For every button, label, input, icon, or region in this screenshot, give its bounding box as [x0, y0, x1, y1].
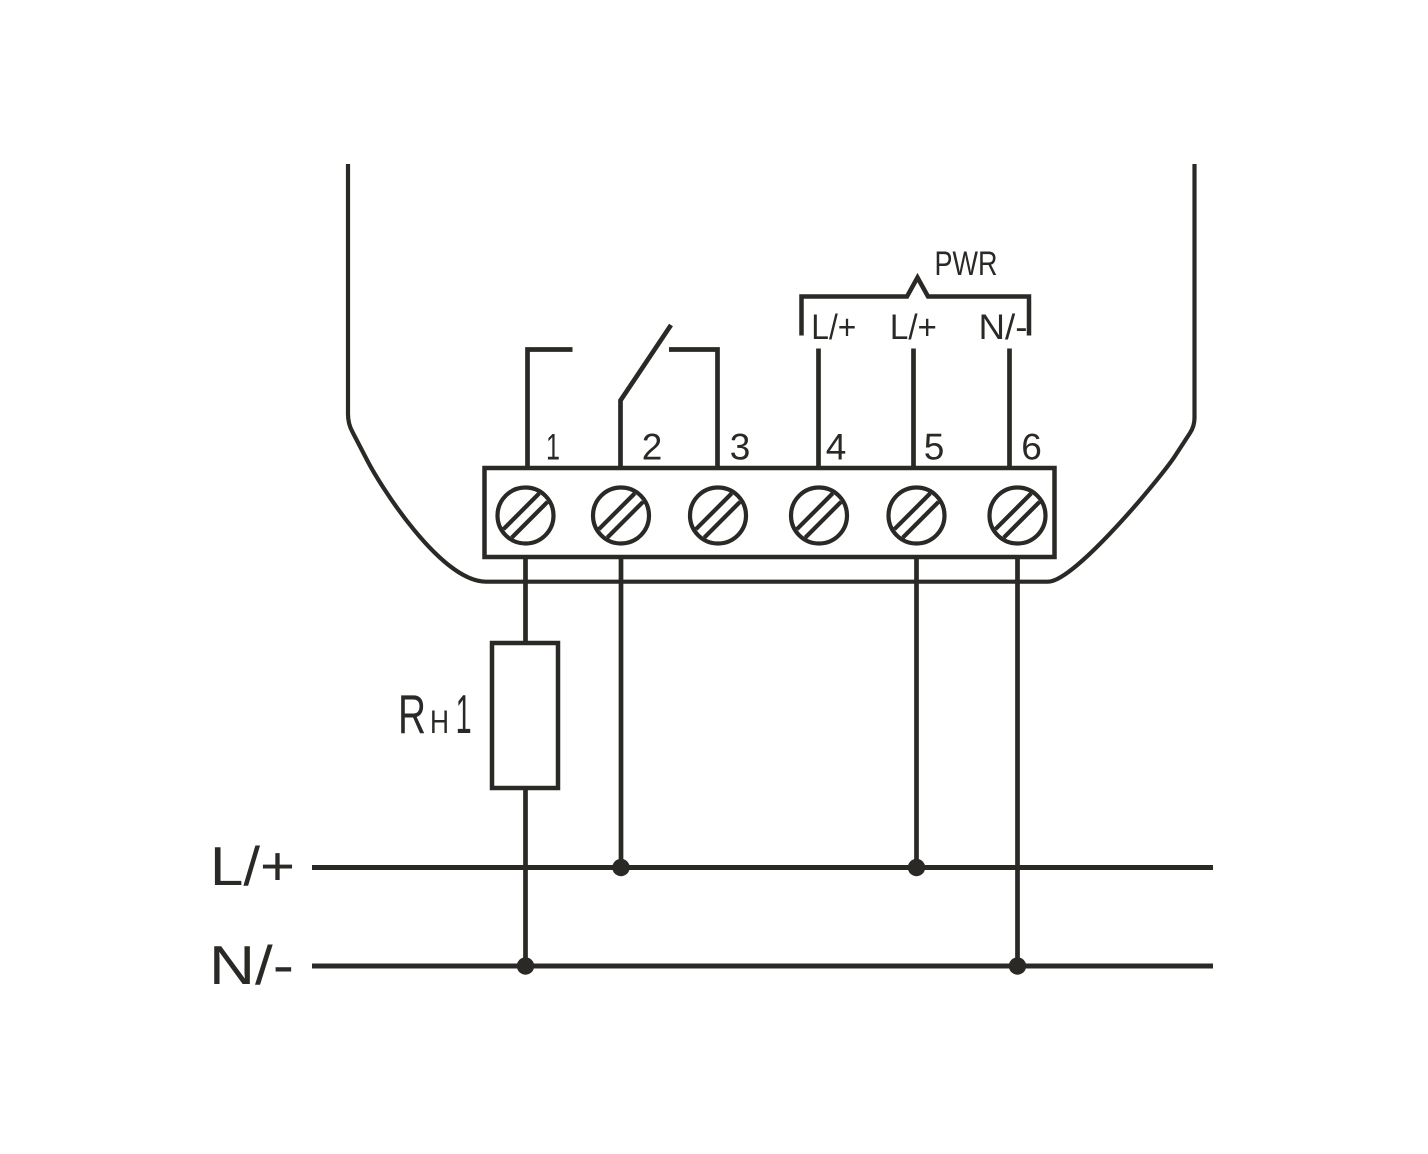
wire terminal1 down to resistor [523, 557, 528, 643]
switch S1 blade [621, 325, 672, 468]
wire terminal4 stub [816, 349, 821, 469]
svg-text:H: H [430, 704, 449, 740]
svg-text:L/+: L/+ [210, 835, 295, 897]
junction wire5/L+ [908, 859, 925, 876]
wire terminal5 down to L/+ bus [914, 557, 919, 868]
terminal strip body [485, 468, 1055, 557]
device enclosure outline [348, 164, 1195, 582]
N/- bus line [312, 964, 1213, 969]
svg-text:L/+: L/+ [890, 308, 937, 347]
svg-text:4: 4 [826, 427, 847, 468]
svg-text:6: 6 [1021, 427, 1042, 468]
svg-text:5: 5 [924, 427, 945, 468]
screw terminal 4 [791, 488, 847, 544]
svg-text:1: 1 [546, 427, 560, 468]
screw terminal 6 [990, 488, 1046, 544]
wire terminal2 down to L/+ bus [619, 557, 624, 868]
PWR bracket [802, 278, 1030, 336]
svg-text:L/+: L/+ [811, 308, 856, 347]
wire terminal6 down to N/- bus [1015, 557, 1020, 966]
svg-text:1: 1 [456, 683, 472, 745]
screw terminal 1 [498, 488, 554, 544]
wire terminal3 to contact [669, 350, 718, 469]
svg-text:R: R [398, 683, 426, 745]
junction wire1/N- [517, 957, 534, 974]
svg-text:3: 3 [730, 427, 751, 468]
resistor RH1 body [492, 643, 558, 788]
svg-text:N/-: N/- [979, 308, 1028, 347]
screw terminal 3 [690, 488, 746, 544]
wire terminal5 stub [911, 349, 916, 469]
L/+ bus line [312, 865, 1213, 870]
junction wire2/L+ [612, 859, 629, 876]
wire terminal1 to contact [528, 350, 573, 469]
svg-text:PWR: PWR [935, 245, 998, 283]
label RH1 [398, 683, 472, 745]
screw terminal 2 [593, 488, 649, 544]
screw terminal 5 [889, 488, 945, 544]
svg-text:N/-: N/- [209, 934, 294, 996]
wire resistor to N/- bus [523, 788, 528, 966]
svg-text:2: 2 [642, 427, 663, 468]
wire terminal6 stub [1007, 349, 1012, 469]
junction wire6/N- [1009, 957, 1026, 974]
